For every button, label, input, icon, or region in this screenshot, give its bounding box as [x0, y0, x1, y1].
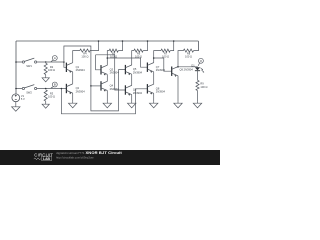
transistor Q9 output driver — [171, 67, 173, 76]
svg-text:2N3904: 2N3904 — [110, 71, 120, 75]
resistor R8 100ohm — [183, 49, 193, 52]
wire R5 to rail — [118, 41, 122, 51]
ground under R3 — [45, 103, 47, 104]
wire R6 to rail — [143, 41, 147, 51]
ground under Q9 — [177, 101, 179, 103]
wire R9 to ground — [197, 91, 199, 102]
ground under Q2 — [72, 101, 74, 103]
svg-text:D1: D1 — [191, 63, 195, 67]
svg-text:100 Ω: 100 Ω — [135, 54, 142, 58]
wire Q3 collector riser — [107, 51, 109, 66]
wire net NAND2 to Q7 base — [107, 58, 147, 67]
wire V1 to ground — [15, 102, 17, 106]
resistor R2 100ohm pulldown A — [44, 63, 47, 74]
wire node B horizontal — [46, 88, 67, 90]
svg-text:2N3904: 2N3904 — [110, 87, 120, 91]
wire Q7 collector riser — [154, 51, 161, 63]
wire Q3 emitter to Q4 collector — [106, 75, 108, 82]
wire top VCC rail — [16, 40, 198, 42]
wire Q1 emitter to Q2 collector — [72, 72, 74, 84]
wire Q9 collector riser to R8 — [178, 51, 183, 67]
ground under V1 — [15, 105, 17, 106]
wire Q5 emitter to Q6 collector — [131, 74, 133, 85]
wire Q2 emitter to ground — [72, 93, 74, 101]
switch SW1 — [16, 61, 46, 63]
resistor R3 100ohm pulldown B — [44, 90, 47, 101]
transistor Q2 — [65, 84, 67, 93]
resistor R5 100ohm — [109, 49, 118, 52]
transistor Q1 — [65, 63, 67, 72]
svg-text:http://circuitlab.com/c69xq3uw: http://circuitlab.com/c69xq3uw — [56, 155, 94, 159]
wire Q9 collector to LED anode — [178, 66, 198, 68]
voltage source V1 5V — [12, 94, 20, 102]
wire net NAND1 crossbar to Q3 and Q6 bases — [96, 55, 126, 90]
wire LED cathode to R9 — [197, 71, 199, 80]
svg-text:SW1: SW1 — [26, 64, 32, 68]
svg-text:100 Ω: 100 Ω — [48, 68, 55, 72]
transistor Q4 — [100, 81, 102, 90]
svg-text:100 Ω: 100 Ω — [81, 54, 88, 58]
wire R4 to rail — [90, 41, 99, 51]
resistor R7 100ohm — [161, 49, 170, 52]
wire R7 to rail — [170, 41, 174, 51]
wire left rail — [15, 41, 17, 94]
node junction left rail / SW2 — [15, 88, 17, 90]
svg-text:2N3904: 2N3904 — [133, 91, 143, 95]
wire R2 to ground — [45, 75, 47, 77]
wire Q4 emitter to ground — [106, 91, 108, 102]
node junction left rail / SW1 — [15, 61, 17, 63]
svg-text:2N3904: 2N3904 — [76, 89, 86, 93]
svg-text:100 Ω: 100 Ω — [48, 94, 55, 98]
svg-text:2N3904: 2N3904 — [76, 68, 86, 72]
svg-text:A: A — [54, 56, 56, 60]
ground under R2 — [45, 77, 47, 78]
wire node A horizontal — [46, 61, 64, 63]
wire Q9 emitter to ground — [177, 76, 179, 102]
wire A to Q1 base (jog) — [64, 62, 67, 67]
wire right rail drop to R8 — [194, 41, 199, 51]
ground under Q8 — [153, 101, 155, 103]
resistor R9 100ohm — [196, 80, 199, 90]
svg-text:100 Ω: 100 Ω — [185, 54, 192, 58]
svg-text:V1: V1 — [21, 94, 25, 98]
ground under R9 — [197, 101, 199, 103]
svg-text:Q9 2N3904: Q9 2N3904 — [180, 67, 194, 71]
resistor R4 100ohm — [80, 49, 90, 52]
wire net A riser and crossover to Q4 base — [64, 46, 91, 86]
svg-text:2N3904: 2N3904 — [133, 71, 143, 75]
svg-text:5 V: 5 V — [21, 97, 25, 101]
LED D1 — [195, 67, 200, 70]
flag node B — [51, 87, 54, 89]
wire Q7 emitter to Q8 collector — [153, 72, 155, 85]
transistor Q5 — [124, 65, 126, 74]
wire Q1 collector riser — [73, 51, 80, 63]
svg-text:LAB: LAB — [43, 157, 51, 161]
svg-text:B: B — [54, 83, 56, 87]
flag output node — [198, 63, 199, 66]
LED emission arrows — [200, 68, 204, 73]
transistor Q7 — [146, 63, 148, 72]
transistor Q6 — [124, 85, 126, 94]
svg-text:100 Ω: 100 Ω — [200, 85, 207, 89]
flag node A — [51, 60, 54, 62]
resistor R6 100ohm — [134, 49, 143, 52]
wire Q5 collector riser — [132, 51, 134, 66]
wire net A lower run to Q5 base — [91, 70, 126, 111]
wire Q8 emitter to ground — [153, 93, 155, 101]
svg-text:SW2: SW2 — [26, 90, 32, 94]
wire R3 to ground — [45, 101, 47, 103]
wire net XOR out to Q9 base — [154, 58, 172, 71]
transistor Q3 — [100, 65, 102, 74]
ground under Q4 — [106, 101, 108, 103]
switch SW2 — [16, 88, 46, 90]
footer watermark bar — [0, 150, 220, 165]
wire net B down-run to Q8 base — [61, 89, 147, 114]
ground under Q6 — [131, 101, 133, 103]
wire Q6 emitter to ground — [131, 95, 133, 102]
svg-text:R9: R9 — [200, 81, 204, 85]
svg-text:2N3904: 2N3904 — [156, 90, 166, 94]
transistor Q8 — [146, 84, 148, 93]
